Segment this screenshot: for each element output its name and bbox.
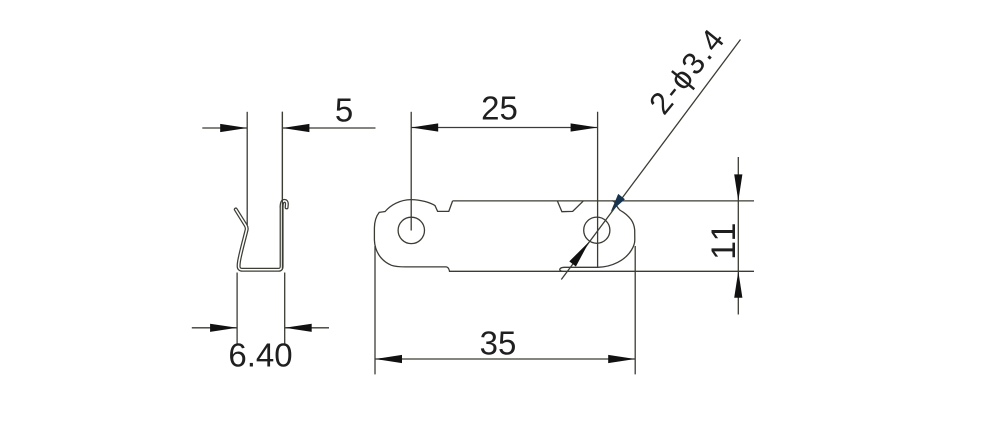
plate outline (top view) <box>374 200 634 272</box>
dimension 25 line <box>411 127 597 129</box>
dimension 6.40 ext line left <box>236 273 238 344</box>
right hole <box>584 217 610 243</box>
dimension 35 arrow left <box>375 355 402 363</box>
clip inner white <box>236 201 287 270</box>
left hole <box>398 217 424 243</box>
35 ext line right <box>634 246 636 374</box>
dimension 11 arrow bottom <box>734 271 742 298</box>
leader line 2-phi3.4 <box>561 40 740 280</box>
svg-text:2-ϕ3.4: 2-ϕ3.4 <box>642 21 732 121</box>
dimension 6.40 line right segment <box>285 327 329 329</box>
leader arrow lower (black) <box>569 242 589 267</box>
svg-text:11: 11 <box>705 221 743 260</box>
25 ext line right <box>597 112 599 267</box>
25 ext line left <box>410 112 412 231</box>
trapezoid notch near right hole <box>558 201 584 212</box>
dimension 25 arrow left <box>411 123 438 131</box>
dimension 35 line <box>375 358 635 360</box>
svg-text:6.40: 6.40 <box>228 337 292 374</box>
dimension 6.40 line left segment <box>192 327 237 329</box>
35 ext line left <box>374 246 376 374</box>
dimension 35 arrow right <box>608 355 635 363</box>
dimension 5 line right segment <box>282 127 375 129</box>
dimension 5 arrow left <box>220 124 247 132</box>
dimension 25 arrow right <box>571 123 598 131</box>
svg-text:35: 35 <box>480 325 517 362</box>
panel right line (side view) <box>281 112 283 269</box>
svg-text:5: 5 <box>335 92 353 129</box>
panel left line (side view) <box>246 112 248 225</box>
11 bottom ext line <box>561 270 754 272</box>
dimension 6.40 arrow right <box>285 324 312 332</box>
dimension 6.40 arrow left <box>210 324 237 332</box>
dimension 5 line left segment <box>202 127 247 129</box>
clip profile outer stroke <box>236 207 282 270</box>
dimension 5 arrow right <box>282 124 309 132</box>
dimension 11 line vertical <box>737 157 739 315</box>
leader arrow upper (navy) <box>611 194 625 212</box>
panel right line overlay <box>281 112 283 269</box>
svg-text:25: 25 <box>481 90 518 127</box>
dimension 6.40 ext line right <box>284 273 286 344</box>
plate top edge + 11 top ext line <box>453 200 754 202</box>
dimension 11 arrow top <box>734 174 742 201</box>
clip hook at top of right wall <box>282 201 287 208</box>
